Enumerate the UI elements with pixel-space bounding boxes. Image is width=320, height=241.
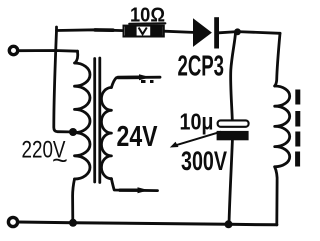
svg-text:10μ: 10μ <box>180 109 214 135</box>
wire bottom rail <box>18 222 277 225</box>
node primary-bottom junction dot <box>69 219 77 227</box>
terminal top-left <box>9 46 17 54</box>
wire left vertical (rail to tap) <box>54 27 69 132</box>
diode D (2CP3) <box>193 17 219 48</box>
svg-text:300V: 300V <box>181 146 227 176</box>
specks <box>141 80 146 83</box>
label leader arrow for capacitor <box>170 132 221 148</box>
svg-text:~: ~ <box>52 146 68 176</box>
transformer T1 core <box>93 59 96 183</box>
wire capacitor bottom branch <box>229 140 232 224</box>
wire coil bottom lead <box>275 167 277 225</box>
transformer T1 secondary winding <box>101 88 111 179</box>
transformer T1 primary winding <box>75 63 91 179</box>
inductor L1 right coil <box>275 86 290 167</box>
svg-text:2CP3: 2CP3 <box>178 51 225 83</box>
svg-text:24V: 24V <box>117 121 158 153</box>
wire primary top lead <box>75 51 78 63</box>
resistor R (10 ohm) body <box>124 26 164 37</box>
wire primary bottom lead <box>73 179 75 223</box>
capacitor C (10u 300V) plates <box>217 120 249 140</box>
wire right side drop to coil <box>275 33 280 86</box>
node capacitor-bottom junction dot <box>225 220 233 228</box>
node diode-cathode junction dot <box>234 28 241 35</box>
node tap junction dot <box>69 128 77 136</box>
inductor L1 dashed core <box>295 90 300 167</box>
terminal bottom-left <box>8 217 17 226</box>
wire secondary top lead <box>111 77 160 87</box>
wire capacitor top branch <box>231 33 236 121</box>
secondary lead arrowheads <box>139 74 151 80</box>
wire secondary bottom lead <box>111 179 157 191</box>
wire top terminal to primary top <box>18 49 78 53</box>
wire diode to right corner <box>219 32 280 34</box>
wire top rail left section <box>57 28 124 32</box>
wire resistor to diode <box>164 31 193 32</box>
